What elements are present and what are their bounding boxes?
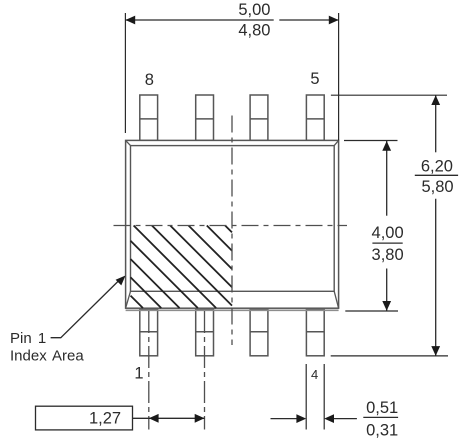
svg-text:3,80: 3,80 — [372, 246, 404, 264]
svg-text:6,20: 6,20 — [421, 157, 453, 175]
pin 2 lead — [196, 310, 214, 356]
svg-text:5,00: 5,00 — [238, 1, 270, 19]
package body seating line — [126, 309, 339, 311]
arrowhead left 5,00 — [125, 16, 135, 25]
arrowhead bottom 6,20 — [431, 346, 440, 356]
leader from frame — [133, 417, 149, 419]
dimension 6,20/5,80 line — [435, 95, 437, 152]
pin 5 lead — [306, 95, 324, 140]
vertical centerline — [231, 116, 233, 346]
dimension 6,20/5,80 top extension — [331, 94, 447, 96]
pin 1 index area hatch — [131, 226, 233, 309]
dimension 4,00/3,80 line — [386, 141, 388, 216]
arrowhead right 5,00 — [329, 16, 339, 25]
body corner chamfer bottom-left — [126, 291, 131, 308]
pin 8 lead — [140, 95, 158, 140]
dimension 4,00/3,80 bottom extension — [345, 310, 398, 312]
arrowhead left 0,51 — [296, 414, 306, 423]
arrowhead right 0,51 — [324, 414, 334, 423]
pin 6 lead — [250, 95, 268, 140]
dimension 0,51/0,31 extension line right — [323, 364, 325, 430]
svg-text:0,31: 0,31 — [366, 421, 398, 439]
dimension 5,00/4,80 extension line left — [124, 13, 126, 133]
horizontal centerline — [114, 225, 348, 227]
arrowhead right 1,27 — [195, 414, 205, 423]
dimension 4,00/3,80 top extension — [344, 140, 398, 142]
dimension 6,20/5,80 bottom extension — [331, 355, 448, 357]
body corner chamfer top-left — [126, 140, 131, 145]
arrowhead top 6,20 — [431, 95, 440, 105]
svg-text:4,00: 4,00 — [372, 224, 404, 242]
package body inner outline — [131, 146, 335, 292]
dimension 5,00/4,80 extension line right — [338, 13, 340, 140]
fraction bar — [372, 242, 402, 244]
svg-text:1,27: 1,27 — [89, 410, 121, 428]
pin 4 lead — [306, 310, 324, 356]
pin 2 centerline — [204, 311, 206, 430]
svg-text:4: 4 — [311, 367, 318, 382]
svg-text:0,51: 0,51 — [366, 399, 398, 417]
dimension 0,51/0,31 line right — [334, 418, 357, 420]
basic dimension 1,27 frame — [36, 406, 133, 430]
top pins group — [140, 95, 324, 140]
svg-text:1: 1 — [134, 365, 143, 383]
svg-text:5: 5 — [310, 70, 319, 88]
fraction bar — [363, 416, 398, 418]
dimension 5,00/4,80 line — [125, 19, 273, 21]
dimension 0,51/0,31 extension line left — [305, 364, 307, 430]
arrowhead bottom 4,00 — [382, 301, 391, 311]
fraction bar — [415, 174, 458, 176]
body corner chamfer top-right — [334, 140, 338, 145]
arrowhead top 4,00 — [382, 141, 391, 151]
dimension 1,27 line — [149, 417, 205, 419]
pin 1 centerline — [148, 311, 150, 430]
leader line — [51, 280, 120, 338]
svg-text:Pin 1: Pin 1 — [10, 330, 46, 347]
dimension 0,51/0,31 line left — [271, 418, 298, 420]
pin 7 lead — [196, 95, 214, 140]
svg-text:8: 8 — [145, 71, 154, 89]
body corner chamfer bottom-right — [334, 291, 338, 308]
arrowhead left 1,27 — [149, 414, 159, 423]
svg-text:4,80: 4,80 — [238, 22, 270, 40]
leader arrowhead — [116, 276, 126, 286]
package body outer outline — [126, 140, 339, 308]
bottom pins group — [140, 310, 324, 356]
svg-text:5,80: 5,80 — [421, 178, 453, 196]
pin 3 lead — [250, 310, 268, 356]
svg-text:Index Area: Index Area — [10, 348, 84, 365]
pin 1 lead — [140, 310, 158, 356]
